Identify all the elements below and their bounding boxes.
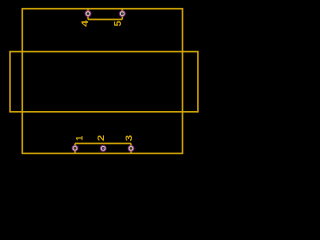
rectangle (wide winding box) bbox=[10, 52, 198, 112]
pin 4 junction circle bbox=[85, 10, 91, 16]
svg-text:4: 4 bbox=[80, 20, 91, 27]
pin 4 stem bbox=[87, 9, 89, 20]
rectangle (tall winding box) bbox=[22, 9, 182, 154]
pin 5 stem bbox=[121, 9, 123, 20]
svg-text:2: 2 bbox=[97, 135, 107, 142]
pin 5 junction circle bbox=[119, 10, 125, 16]
pin 3 junction circle bbox=[128, 145, 134, 151]
pin 1 stem bbox=[74, 143, 76, 153]
wire top bus bbox=[88, 18, 122, 20]
svg-text:5: 5 bbox=[113, 20, 124, 26]
svg-text:3: 3 bbox=[125, 135, 135, 142]
pin 3 stem bbox=[130, 143, 132, 153]
pin 2 junction circle bbox=[100, 146, 106, 152]
svg-text:1: 1 bbox=[74, 136, 84, 141]
pin 1 junction circle bbox=[72, 145, 78, 151]
wire bottom bus bbox=[75, 142, 131, 144]
